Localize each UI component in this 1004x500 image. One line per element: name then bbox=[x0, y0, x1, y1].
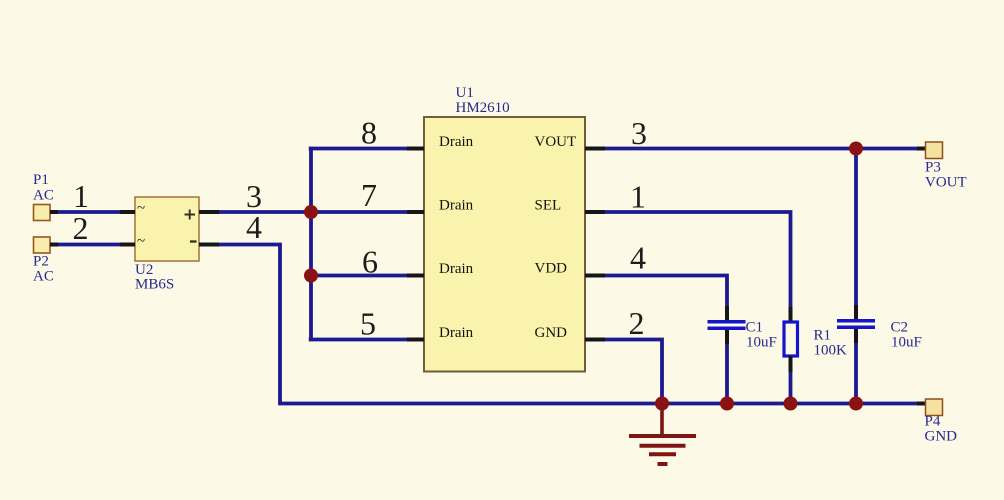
svg-text:100K: 100K bbox=[814, 343, 848, 359]
svg-text:4: 4 bbox=[246, 209, 262, 245]
svg-text:3: 3 bbox=[631, 115, 647, 151]
svg-text:P3: P3 bbox=[925, 160, 941, 176]
svg-text:U1: U1 bbox=[456, 85, 474, 101]
svg-text:2: 2 bbox=[629, 305, 645, 341]
svg-text:AC: AC bbox=[33, 188, 54, 204]
junction bus / C2 bbox=[849, 397, 863, 411]
svg-text:6: 6 bbox=[362, 244, 378, 280]
junction on net3 bbox=[304, 205, 318, 219]
wire to pin 6 bbox=[309, 274, 407, 278]
junction on drain bus bbox=[304, 269, 318, 283]
svg-text:P2: P2 bbox=[33, 254, 49, 270]
svg-text:10uF: 10uF bbox=[891, 335, 922, 351]
svg-text:P1: P1 bbox=[33, 172, 49, 188]
svg-text:P4: P4 bbox=[925, 414, 941, 430]
pin stub 8 bbox=[407, 147, 424, 151]
svg-text:C2: C2 bbox=[891, 320, 909, 336]
junction bus / GND pin bbox=[655, 397, 669, 411]
svg-text:1: 1 bbox=[73, 178, 89, 214]
svg-text:SEL: SEL bbox=[535, 198, 562, 214]
svg-text:Drain: Drain bbox=[439, 325, 474, 341]
resistor R1 bbox=[784, 307, 847, 404]
svg-text:1: 1 bbox=[630, 179, 646, 215]
wire net VOUT row to P3 bbox=[605, 147, 917, 151]
svg-text:Drain: Drain bbox=[439, 261, 474, 277]
connector P3 bbox=[917, 142, 967, 191]
wire net SEL down to R1 bbox=[605, 212, 791, 307]
svg-text:C1: C1 bbox=[746, 320, 764, 336]
wire vertical bus joining U1 drains bbox=[309, 147, 313, 342]
svg-text:10uF: 10uF bbox=[746, 335, 777, 351]
wire net1 P1 to U2 bbox=[50, 210, 58, 214]
pin stub 5 bbox=[407, 338, 424, 342]
pin stub VOUT bbox=[585, 147, 605, 151]
ground symbol bbox=[629, 404, 696, 465]
wire net3 U2+ to U1 pin7 bbox=[219, 210, 407, 214]
connector P1 bbox=[33, 172, 54, 221]
svg-text:~: ~ bbox=[137, 201, 145, 217]
pin stub SEL bbox=[585, 210, 605, 214]
svg-text:VOUT: VOUT bbox=[925, 175, 967, 191]
svg-text:GND: GND bbox=[535, 325, 568, 341]
junction bus / R1 bbox=[784, 397, 798, 411]
svg-text:8: 8 bbox=[361, 115, 377, 151]
wire to pin 5 bbox=[309, 338, 407, 342]
junction net VOUT / C2 bbox=[849, 142, 863, 156]
connector P4 bbox=[917, 399, 957, 445]
svg-text:4: 4 bbox=[630, 240, 646, 276]
svg-text:Drain: Drain bbox=[439, 198, 474, 214]
pin stub 7 bbox=[407, 210, 424, 214]
svg-text:VDD: VDD bbox=[535, 261, 568, 277]
wire net GND down to bottom bus bbox=[605, 340, 662, 404]
svg-text:2: 2 bbox=[73, 210, 89, 246]
svg-text:R1: R1 bbox=[814, 328, 832, 344]
junction bus / C1 bbox=[720, 397, 734, 411]
pin stub GND bbox=[585, 338, 605, 342]
capacitor C1 bbox=[708, 306, 777, 404]
svg-text:~: ~ bbox=[137, 234, 145, 250]
svg-text:7: 7 bbox=[361, 177, 377, 213]
wire net VDD down to C1 bbox=[605, 276, 727, 307]
bridge rectifier U2 bbox=[120, 197, 219, 293]
IC U1 HM2610 bbox=[407, 85, 605, 372]
svg-text:GND: GND bbox=[925, 429, 958, 445]
wire to pin 8 bbox=[309, 147, 407, 151]
wire net2 P2 to U2 bbox=[50, 243, 58, 247]
svg-text:MB6S: MB6S bbox=[135, 277, 174, 293]
svg-text:5: 5 bbox=[360, 306, 376, 342]
connector P2 bbox=[33, 237, 54, 285]
wire net4 U2- down and along bottom to P4 bbox=[219, 245, 917, 404]
pin stub VDD bbox=[585, 274, 605, 278]
svg-text:AC: AC bbox=[33, 269, 54, 285]
svg-text:Drain: Drain bbox=[439, 134, 474, 150]
svg-text:VOUT: VOUT bbox=[535, 134, 577, 150]
svg-text:HM2610: HM2610 bbox=[456, 100, 510, 116]
pin stub 6 bbox=[407, 274, 424, 278]
capacitor C2 bbox=[837, 149, 922, 404]
